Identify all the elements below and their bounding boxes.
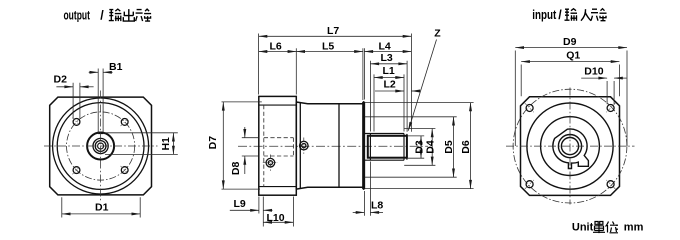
svg-text:D10: D10 (584, 66, 603, 78)
center circle (98, 143, 104, 149)
dimension B1 (89, 69, 113, 134)
bore circle (95, 141, 106, 152)
dimension D1 (62, 197, 140, 217)
dimension L10 (263, 197, 293, 227)
CJK 單 (593, 222, 605, 234)
input shaft bore (thick) (368, 136, 407, 158)
body circle (57, 103, 144, 190)
unit note (572, 221, 644, 233)
dimension Q1 (521, 62, 619, 97)
CJK 出 (123, 9, 134, 21)
dimension L7 (259, 34, 412, 132)
centerline horizontal (506, 145, 635, 147)
svg-text:D9: D9 (563, 36, 577, 48)
dimension L6 (259, 48, 297, 94)
svg-text:L1: L1 (383, 65, 395, 77)
svg-text:L9: L9 (234, 198, 246, 210)
body seam lines (300, 103, 339, 189)
corner hole bottom-right (607, 181, 614, 188)
CJK 入 (581, 9, 591, 21)
dimension L1 (374, 74, 404, 131)
svg-text:L8: L8 (371, 200, 383, 212)
bolt hole bottom-right (121, 167, 128, 174)
CJK 端 (591, 9, 607, 21)
svg-text:L5: L5 (322, 40, 334, 52)
body screw hole tick (303, 138, 305, 155)
dimension L5 (296, 48, 363, 100)
bolt hole ticks (72, 118, 129, 175)
svg-text:L7: L7 (327, 25, 339, 37)
hidden bore lines (264, 138, 294, 156)
body circle (527, 103, 613, 189)
body screw hole (300, 141, 309, 150)
dimension L3 (370, 61, 407, 132)
flange chamfer lines (259, 105, 297, 187)
dimension D2 (56, 83, 93, 119)
dimension L8 (353, 162, 383, 216)
svg-text:input: input (532, 8, 557, 22)
svg-text:mm: mm (624, 222, 644, 234)
dimension D8 (242, 127, 259, 174)
hub mid circle (93, 138, 108, 153)
centerline vertical (569, 88, 571, 205)
svg-text:Q1: Q1 (566, 50, 580, 62)
CJK 輸 (565, 9, 578, 21)
dimension H1 (104, 133, 178, 155)
clamp hub outline (553, 129, 589, 169)
svg-text::: : (615, 221, 619, 233)
svg-text:D1: D1 (95, 202, 109, 214)
bore circle inner (561, 138, 578, 155)
svg-text:L2: L2 (384, 79, 396, 91)
keyway mark (98, 132, 103, 134)
dimension D9 (515, 48, 627, 146)
body outline (296, 102, 364, 189)
bolt circle D9 (dash-dot) (513, 89, 627, 203)
CJK 輸 (109, 9, 122, 21)
hidden recess line (263, 105, 265, 187)
svg-text:Unit: Unit (572, 222, 594, 234)
corner hole ticks (525, 103, 616, 189)
bore circle outer (558, 135, 581, 158)
svg-text:D4: D4 (424, 140, 436, 154)
title input (532, 8, 606, 22)
dimension D4 (404, 129, 435, 166)
centerline horizontal (44, 145, 158, 147)
shaft end cap (406, 134, 408, 160)
dimension D10 (581, 78, 626, 104)
bolt hole bottom-left (73, 167, 80, 174)
dimension D7 (222, 102, 262, 189)
svg-text:L10: L10 (267, 212, 285, 224)
hub outer circle (87, 133, 114, 160)
bolt hole top-left (73, 119, 80, 126)
svg-text:D6: D6 (460, 140, 472, 154)
dimension D5 (365, 117, 457, 177)
corner hole top-right (607, 105, 614, 112)
center axis (238, 145, 428, 147)
dimension L2 (375, 90, 420, 92)
svg-text:Z: Z (434, 28, 441, 40)
svg-text:L3: L3 (381, 52, 393, 64)
flange face circle (53, 98, 149, 194)
output flange block (259, 96, 297, 195)
centerline vertical (100, 91, 102, 202)
corner hole bottom-left (526, 181, 533, 188)
input shaft sleeve (364, 134, 404, 161)
svg-text:output: output (64, 9, 91, 23)
dimension L9 (230, 197, 273, 227)
bolt circle (dash-dot) (67, 112, 135, 180)
svg-text:D7: D7 (207, 136, 219, 150)
svg-text:D5: D5 (443, 140, 455, 154)
svg-text:D2: D2 (54, 74, 68, 86)
svg-text:H1: H1 (160, 137, 172, 151)
bolt hole top-right (121, 119, 128, 126)
pilot boss circle (541, 117, 600, 176)
dimension D6 (365, 103, 474, 189)
svg-text:L6: L6 (270, 40, 282, 52)
svg-text:B1: B1 (109, 61, 123, 73)
flange screw hole (266, 158, 275, 167)
dimension D3 (408, 136, 424, 158)
svg-text:/: / (558, 8, 562, 22)
CJK 位 (606, 222, 619, 233)
label Z leader (408, 40, 436, 131)
CJK 端 (136, 9, 152, 21)
screw hole ticks (263, 155, 278, 172)
output flange square (50, 97, 152, 195)
dimension L4 (364, 48, 411, 99)
corner hole top-left (526, 105, 533, 112)
svg-text:L4: L4 (379, 40, 391, 52)
input flange square (521, 97, 620, 196)
svg-text:/: / (100, 9, 104, 23)
svg-text:D8: D8 (230, 162, 242, 176)
title output (64, 9, 152, 23)
